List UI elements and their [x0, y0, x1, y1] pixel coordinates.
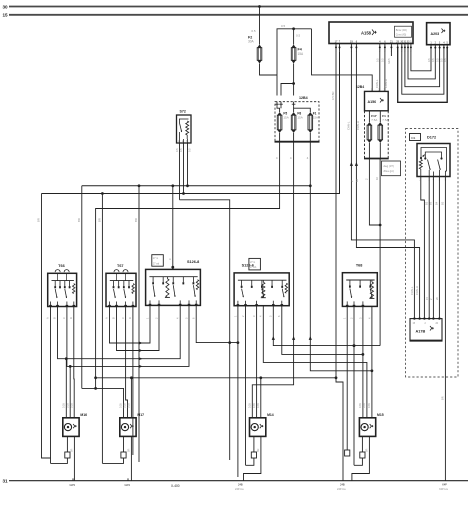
wire U link [405, 48, 440, 87]
svg-text:0.5: 0.5 [188, 148, 192, 152]
svg-text:27 m: 27 m [153, 258, 158, 260]
svg-text:0.35: 0.35 [253, 403, 256, 408]
svg-text:CAN-H: CAN-H [356, 121, 360, 130]
wire CAN-L long [351, 48, 414, 319]
svg-text:Bmw (A5): Bmw (A5) [396, 29, 407, 32]
svg-text:15A: 15A [298, 52, 305, 56]
wire S72 pin2 [183, 143, 185, 194]
S72 pins [179, 139, 181, 143]
wire S126-6 pin1 [237, 306, 239, 477]
motor M16 [63, 418, 79, 437]
wire drop x102 [101, 194, 103, 464]
svg-text:0.5: 0.5 [431, 58, 435, 62]
svg-text:D: D [128, 317, 132, 319]
svg-text:A156: A156 [368, 100, 377, 104]
svg-text:X4P: X4P [442, 483, 447, 487]
svg-text:D172: D172 [427, 136, 436, 140]
wire fuse F5 output to left bus [96, 142, 280, 389]
svg-text:30A: 30A [248, 40, 255, 44]
terminal [121, 452, 126, 458]
wire U link [402, 48, 444, 94]
wire T68 pin1 [346, 306, 348, 450]
legend box [152, 255, 164, 267]
svg-text:15: 15 [3, 13, 9, 18]
ground point GP3 [72, 478, 74, 480]
svg-text:CAN-L: CAN-L [410, 286, 414, 295]
wire T67 pin3 to M17 [126, 307, 128, 418]
wire S72 pin1 [179, 143, 181, 200]
svg-text:0.5: 0.5 [387, 58, 391, 62]
wire T68 pin2 [353, 306, 355, 465]
svg-text:GP4: GP4 [125, 483, 131, 487]
svg-text:BR: BR [441, 396, 445, 400]
wire jog F [82, 388, 124, 417]
note box [382, 161, 401, 176]
wire CAN-H long [356, 48, 419, 319]
wire A158 pin17 long drop [335, 48, 337, 378]
wire [293, 133, 295, 142]
wire S126-6 pin6 jog H2 [282, 306, 363, 355]
A158 left pins [335, 44, 337, 48]
wire T68 pin4 [371, 306, 373, 370]
relay D172 [417, 144, 450, 177]
wire CAN stub to A156 p2 [379, 48, 381, 92]
svg-text:0.35: 0.35 [368, 403, 371, 408]
A158 legend box [395, 26, 412, 37]
wire bus E [96, 377, 336, 379]
svg-text:T66: T66 [58, 264, 65, 268]
label tag D1 [410, 134, 421, 141]
svg-text:GP3: GP3 [70, 483, 76, 487]
wire S126-8 pin6 [196, 305, 238, 342]
relay box D172 enclosure [406, 129, 458, 378]
svg-text:12B4: 12B4 [299, 96, 308, 100]
svg-text:27 wb: 27 wb [153, 263, 160, 265]
wire U link [411, 48, 431, 71]
svg-text:D1: D1 [411, 136, 415, 140]
svg-text:BR: BR [134, 218, 138, 222]
svg-text:M17: M17 [137, 413, 144, 417]
svg-text:BR: BR [37, 218, 41, 222]
svg-text:X-400: X-400 [171, 484, 180, 488]
wire [279, 133, 281, 142]
svg-text:C: C [121, 317, 125, 319]
svg-text:Ama: Ama [73, 286, 76, 292]
wire M16 to ground GP3 [73, 436, 75, 480]
svg-text:31: 31 [3, 479, 9, 484]
control unit A17B [410, 319, 442, 341]
wire U link [398, 48, 448, 103]
svg-text:BR: BR [71, 448, 74, 452]
svg-text:M16: M16 [80, 413, 87, 417]
svg-text:27 wb: 27 wb [250, 267, 257, 269]
fusebox dashed sides [365, 111, 389, 159]
wire M14 ground loop [253, 436, 255, 452]
wire M17 feed3 [130, 378, 132, 418]
svg-text:C: C [62, 317, 66, 319]
wire T67 pin1 jog A [110, 305, 151, 343]
svg-text:0.5: 0.5 [381, 58, 385, 62]
wire inside fusebox [280, 107, 282, 108]
svg-text:BR: BR [257, 448, 260, 452]
svg-text:T67: T67 [117, 264, 124, 268]
relay contact 1 [428, 160, 431, 171]
wire T66 pin2 jog C [58, 305, 181, 358]
wire M14 feed3 [260, 378, 262, 418]
svg-text:30: 30 [3, 4, 9, 9]
wire fuse F8 output to M14 [252, 142, 293, 418]
terminal [345, 450, 350, 456]
svg-text:S72: S72 [180, 110, 186, 114]
wire relay out to ground [444, 177, 446, 481]
wire F2 output jog [260, 64, 278, 76]
wire T66 pin1 [50, 307, 52, 464]
svg-text:0.5: 0.5 [179, 148, 183, 152]
wire M14 ground step [244, 436, 261, 480]
svg-text:S126-8: S126-8 [187, 260, 199, 264]
wire fuse F1 output to M15 [310, 142, 372, 418]
terminal [65, 452, 70, 458]
svg-text:15A: 15A [297, 116, 302, 120]
relay contact 2 [438, 160, 441, 171]
svg-text:0.5: 0.5 [281, 24, 286, 28]
wire [336, 378, 343, 481]
wire T68 pin3 to M15 [362, 306, 364, 417]
svg-text:#Ga (pt): #Ga (pt) [384, 169, 394, 173]
wire F4 drop [292, 27, 295, 30]
svg-text:24P-Ua: 24P-Ua [337, 488, 346, 491]
wire U link [408, 48, 435, 79]
wire inside fusebox [277, 107, 280, 112]
wire CAN stub to A156 p3 [384, 48, 386, 92]
svg-text:M14: M14 [267, 413, 274, 417]
wire M15 ground loop [361, 436, 363, 452]
svg-text:A17B: A17B [416, 330, 426, 334]
motor M14 [250, 418, 266, 437]
svg-text:B3: B3 [429, 201, 433, 205]
control unit A203 [427, 23, 450, 45]
wire S126-6 pin3 to M14 [256, 306, 258, 418]
terminal [360, 452, 365, 458]
wire bus L3 [180, 200, 230, 460]
wire stub A158 pin21 [390, 48, 392, 56]
svg-text:0.5: 0.5 [427, 58, 431, 62]
motor M15 [359, 418, 375, 437]
svg-text:deg (37): deg (37) [384, 164, 394, 168]
terminal [251, 452, 256, 458]
svg-text:A158: A158 [361, 31, 372, 36]
wire F1 output chain [379, 159, 381, 346]
svg-text:CAN-H: CAN-H [415, 286, 419, 295]
wire T67 pin4 [132, 307, 134, 456]
svg-text:0.35: 0.35 [66, 403, 69, 408]
legend box [249, 258, 261, 270]
svg-text:7.5A: 7.5A [371, 118, 377, 122]
svg-text:CAN-L: CAN-L [375, 79, 379, 88]
wire bus L2 [42, 48, 340, 194]
svg-text:Ama: Ama [132, 286, 135, 292]
svg-text:0.5: 0.5 [251, 29, 256, 33]
wire M16 feed2 [69, 366, 71, 417]
wire M16 ground loop [66, 436, 68, 452]
svg-text:A: A [105, 317, 109, 319]
wire relay out B3 [432, 177, 434, 319]
wire drop x139 [138, 186, 140, 462]
svg-text:0.35: 0.35 [363, 403, 366, 408]
svg-text:0.5: 0.5 [435, 58, 439, 62]
svg-text:24B: 24B [340, 483, 345, 487]
svg-text:0.35: 0.35 [70, 403, 73, 408]
wire inside fusebox [293, 107, 295, 112]
wire S72 pin3 [187, 143, 189, 186]
svg-text:10: 10 [375, 176, 379, 180]
svg-text:0.35: 0.35 [128, 403, 131, 408]
svg-text:B: B [53, 317, 57, 319]
wire drop to S126-8 top [172, 186, 174, 270]
A158 right pins [379, 44, 381, 48]
svg-text:BR: BR [128, 448, 131, 452]
svg-text:CAN-H: CAN-H [384, 79, 388, 88]
svg-text:A: A [46, 317, 50, 319]
svg-text:0.5 BR: 0.5 BR [331, 91, 335, 100]
svg-text:15A: 15A [283, 116, 288, 120]
wire relay out B4 [438, 177, 440, 319]
wire inside fusebox [294, 108, 311, 112]
relay coil [419, 160, 422, 170]
relay inner frame outer [421, 148, 447, 172]
wire T67 pin2 jog B [117, 305, 160, 350]
wire M17 ground loop [123, 436, 125, 452]
svg-text:0.5: 0.5 [376, 58, 380, 62]
svg-text:12B4: 12B4 [356, 85, 364, 89]
svg-text:7.5A: 7.5A [382, 118, 388, 122]
svg-text:0.35: 0.35 [120, 403, 123, 408]
svg-text:24B: 24B [238, 483, 243, 487]
wire M15 ground step [352, 436, 370, 480]
svg-text:A203: A203 [431, 32, 440, 36]
svg-text:0.35: 0.35 [359, 403, 362, 408]
wire [309, 133, 311, 142]
svg-text:B5: B5 [441, 201, 445, 205]
wire relay out B2 [428, 177, 430, 319]
svg-text:B4: B4 [435, 201, 439, 205]
wire M16 feed1 [65, 359, 67, 418]
wire T66 pin3 jog D [67, 305, 189, 366]
svg-text:B: B [112, 317, 116, 319]
wire left drop from L1 [81, 186, 83, 389]
wire S126-6 pin4 jog to M15 [263, 306, 367, 418]
wire F4 output [293, 64, 295, 96]
wire relay coil to A17B [421, 177, 425, 319]
svg-text:0.35: 0.35 [249, 403, 252, 408]
svg-text:D: D [69, 317, 73, 319]
A17B top pins [413, 317, 415, 319]
svg-text:X4P-Ua: X4P-Ua [439, 488, 448, 491]
svg-text:0.35: 0.35 [124, 403, 127, 408]
wire branch to fusebox pin [281, 84, 294, 96]
svg-text:BR: BR [98, 218, 102, 222]
svg-text:B2: B2 [424, 201, 428, 205]
svg-text:0.5: 0.5 [175, 148, 179, 152]
svg-text:15A: 15A [313, 116, 318, 120]
svg-text:Cnw (A5): Cnw (A5) [396, 33, 407, 36]
svg-text:0.5: 0.5 [296, 34, 301, 38]
wire M17 to ground GP4 [130, 436, 132, 480]
svg-text:24P-Ua: 24P-Ua [235, 488, 244, 491]
wire S126-6 pin2 [245, 306, 247, 466]
motor M17 [120, 418, 136, 437]
svg-text:T68: T68 [356, 264, 363, 268]
svg-text:0.35: 0.35 [257, 403, 260, 408]
control unit A158 [329, 22, 413, 44]
svg-text:0.35: 0.35 [63, 403, 66, 408]
relay inner frame inner [425, 152, 441, 159]
wire from rail 30 to fuse F2 [258, 5, 261, 8]
ground point GP4 [127, 478, 129, 480]
wire S126-6 pin5 jog H1 [273, 306, 380, 346]
svg-text:M15: M15 [377, 413, 384, 417]
svg-text:27 m: 27 m [250, 262, 255, 264]
svg-text:10: 10 [355, 178, 359, 182]
relay bottom stubs [432, 172, 434, 177]
svg-text:CAN-L: CAN-L [347, 121, 351, 130]
wire bus L1 [82, 185, 310, 187]
svg-text:BR: BR [366, 448, 369, 452]
wire T66 pin4 jog [73, 307, 75, 418]
fusebox top pins [275, 103, 279, 105]
wire left drop from L2 [42, 194, 51, 459]
svg-text:BR: BR [77, 218, 81, 222]
wire feeder bus y29 [277, 29, 312, 96]
wire F17 output [369, 159, 380, 226]
wire to A156 pin 1 [312, 29, 373, 92]
